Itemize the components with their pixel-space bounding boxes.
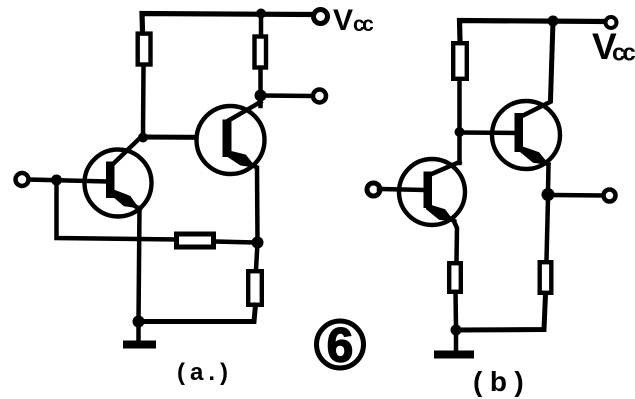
terminal Vcc (b) [606, 17, 617, 28]
wire R5 bottom to Q3 collector [457, 81, 462, 163]
wire R4 bottom to ground rail (a) [140, 305, 256, 322]
wire rail to Q4 collector [551, 21, 554, 100]
junction dot node R5/Q3-collector (b) [455, 127, 465, 137]
wire ground stub (b) [454, 331, 459, 350]
svg-text:6: 6 [327, 320, 354, 373]
wire to output terminal (a) [263, 93, 311, 98]
junction dot ground node (a) [133, 316, 145, 328]
wire input to Q1 base [29, 180, 106, 182]
resistor R1 [138, 34, 151, 65]
svg-text:(b): (b) [473, 366, 531, 397]
wire to output terminal (b) [553, 193, 602, 198]
ground (a) [123, 341, 156, 349]
wire Q4 emitter down [546, 165, 551, 192]
wire ground stub (a) [136, 322, 141, 341]
junction dot output node (a) [255, 90, 267, 102]
wire R1 bottom to node (a) [141, 67, 146, 135]
ground (b) [434, 351, 474, 359]
resistor R3 [177, 234, 214, 247]
wire R6 bottom to ground node (b) [453, 292, 458, 327]
junction dot rail-R2 (a) [256, 9, 266, 19]
transistor Q2 [197, 102, 265, 174]
figure number 6 circled [317, 320, 364, 373]
resistor R4 [248, 271, 262, 305]
resistor R6 [449, 263, 461, 292]
wire node to Q4 base [461, 130, 516, 135]
wire Q2 emitter down through node to R4 [256, 168, 258, 270]
svg-text:cc: cc [612, 40, 635, 67]
resistor R2 [255, 37, 267, 68]
svg-text:V: V [333, 4, 353, 37]
terminal output (b) [604, 190, 616, 202]
wire rail to R2 [259, 15, 264, 34]
wire Q1 emitter down to ground node [139, 208, 140, 320]
wire Vcc rail (a) [142, 14, 311, 32]
wire Q3 emitter down to R6 [453, 219, 457, 261]
wire output node to R7 [547, 198, 549, 260]
wire R3 to Q2 emitter node [216, 242, 254, 243]
junction dot output node (b) [542, 188, 555, 201]
junction dot input/feedback (a) [51, 175, 62, 186]
input terminal (b) [367, 183, 380, 196]
wire input to Q3 base [379, 189, 423, 190]
wire node to Q2 base [143, 135, 223, 141]
wire R7 bottom to ground rail (b) [459, 294, 546, 330]
terminal Vcc (a) [314, 10, 328, 24]
transistor Q1 [85, 135, 152, 217]
junction dot rail (b) [548, 16, 559, 27]
junction dot feedback/emitter (a) [252, 237, 264, 249]
transistor Q4 [492, 101, 560, 169]
wire R2 to collector node Q2 [258, 70, 263, 106]
junction dot node R1/Q1-collector (a) [138, 133, 148, 143]
terminal output (a) [313, 90, 326, 103]
wire feedback branch [57, 182, 177, 240]
resistor R7 [540, 262, 552, 293]
label Vcc (a) [333, 4, 374, 37]
wire Vcc rail (b) [460, 21, 605, 42]
svg-text:cc: cc [353, 13, 374, 36]
label Vcc (b) [592, 26, 635, 67]
svg-text:(a.): (a.) [177, 359, 233, 386]
transistor Q3 [399, 159, 465, 225]
junction dot ground node (b) [451, 325, 462, 336]
resistor R5 [453, 43, 467, 79]
input terminal (a) [16, 173, 29, 186]
